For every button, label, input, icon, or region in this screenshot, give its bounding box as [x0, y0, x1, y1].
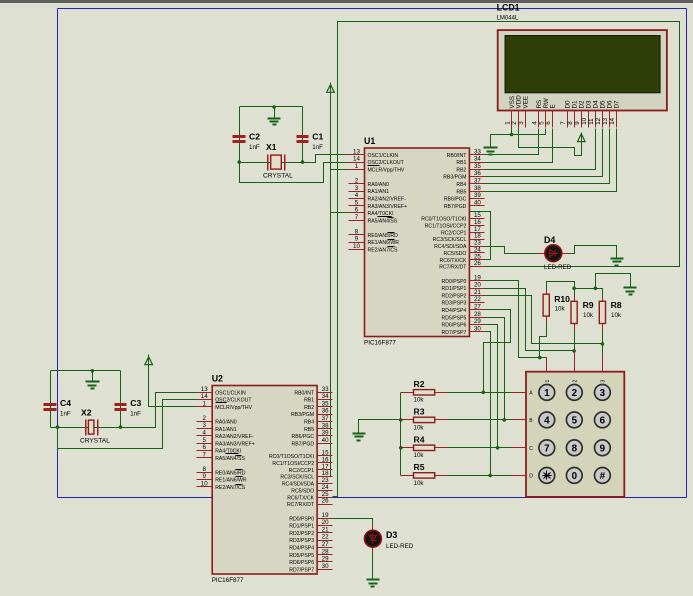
svg-text:RC6/TX/CK: RC6/TX/CK — [287, 495, 314, 501]
svg-text:36: 36 — [322, 408, 329, 415]
pin 16 RC1/T1OSI/CCP2 (right) — [318, 462, 333, 464]
junction X2 loop — [56, 425, 60, 429]
svg-text:D4: D4 — [544, 235, 555, 245]
svg-text:RB2: RB2 — [304, 405, 314, 411]
svg-text:RA1/AN1: RA1/AN1 — [368, 189, 390, 195]
junction VSS — [510, 133, 514, 137]
pin 21 RD2/PSP2 (right) — [318, 532, 333, 534]
microcontroller U2 PIC16F877 — [197, 374, 333, 585]
pin 16 RC1/T1OSI/CCP2 (right) — [470, 225, 485, 227]
svg-text:RC5/SDO: RC5/SDO — [291, 489, 314, 495]
svg-text:RC7/RX/DT: RC7/RX/DT — [439, 265, 467, 271]
svg-text:22: 22 — [474, 296, 481, 303]
svg-text:RB3/PGM: RB3/PGM — [443, 175, 466, 181]
svg-text:RD2/PSP2: RD2/PSP2 — [442, 294, 467, 300]
svg-text:10k: 10k — [555, 306, 566, 313]
pin 13 OSC1/CLKIN (left) — [349, 154, 365, 156]
wire C3 vertical — [120, 371, 122, 428]
wire RB1 to LCD E — [485, 129, 553, 163]
pin 33 RB0/INT (right) — [470, 154, 485, 156]
junction C2/X1 — [237, 160, 241, 164]
svg-text:R9: R9 — [583, 300, 594, 310]
keypad row pin D — [512, 475, 527, 477]
junction col1 — [538, 356, 542, 360]
junction rail row B — [399, 418, 403, 422]
svg-text:37: 37 — [322, 415, 329, 422]
pin 5 RA3/AN3/VREF+ (left) — [197, 443, 213, 445]
pin 2 RA0/AN0 (left) — [349, 183, 365, 185]
resistor R2 stubs — [401, 392, 448, 394]
resistor R3 stubs — [401, 419, 448, 421]
svg-text:8: 8 — [355, 228, 359, 235]
pin 23 RC4/SDI/SDA (right) — [318, 483, 333, 485]
svg-text:2: 2 — [202, 415, 206, 422]
svg-text:14: 14 — [609, 117, 616, 124]
svg-text:RD5/PSP5: RD5/PSP5 — [289, 553, 314, 559]
svg-text:RE2/AN7/CS: RE2/AN7/CS — [368, 247, 399, 253]
LCD pin 5 RW — [545, 111, 547, 128]
svg-text:14: 14 — [353, 156, 360, 163]
svg-text:4: 4 — [544, 416, 550, 427]
LCD screen — [505, 36, 660, 93]
svg-text:29: 29 — [322, 556, 329, 563]
wire C2 vertical — [239, 107, 241, 163]
wire R8 top rail — [575, 289, 603, 297]
wire top rail of X2 caps — [51, 370, 121, 372]
junction C1/X1 — [301, 160, 305, 164]
resistor R4 (10k) — [414, 445, 435, 450]
resistor R3 (10k) — [414, 417, 435, 422]
svg-text:CRYSTAL: CRYSTAL — [80, 438, 110, 445]
pin 17 RC2/CCP1 (right) — [318, 469, 333, 471]
svg-text:C3: C3 — [130, 398, 141, 408]
svg-text:D0: D0 — [565, 100, 572, 109]
svg-text:10: 10 — [353, 243, 360, 250]
wire row A — [448, 392, 512, 394]
svg-text:1nF: 1nF — [312, 144, 323, 151]
LCD pin 10 D3 — [588, 111, 590, 128]
pin 7 RA5/AN4/SS (left) — [197, 457, 213, 459]
svg-text:39: 39 — [474, 192, 481, 199]
LCD pin 13 D6 — [609, 111, 611, 128]
wire D3 cathode to ground — [372, 549, 374, 580]
junction R9/R10 tops — [572, 287, 576, 291]
wire LCD VSS to ground — [491, 135, 512, 148]
pin 35 RB2 (right) — [470, 169, 485, 171]
keypad column pin — [574, 351, 576, 372]
pin 30 RD7/PSP7 (right) — [470, 331, 485, 333]
svg-text:R2: R2 — [414, 379, 425, 389]
svg-text:10k: 10k — [414, 424, 425, 431]
junction X2 rail — [91, 369, 95, 373]
pin 26 RC7/RX/DT (right) — [470, 266, 485, 268]
keypad column pin — [546, 358, 548, 372]
svg-text:RC1/T1OSI/CCP2: RC1/T1OSI/CCP2 — [425, 223, 467, 229]
svg-text:R5: R5 — [414, 462, 425, 472]
svg-text:RA1/AN1: RA1/AN1 — [215, 427, 237, 433]
LCD pin 11 D4 — [595, 111, 597, 128]
svg-text:38: 38 — [474, 185, 481, 192]
pin 10 RE2/AN7/CS (left) — [349, 249, 365, 251]
svg-text:RB6/PGC: RB6/PGC — [444, 197, 467, 203]
svg-text:5: 5 — [355, 199, 359, 206]
pin 2 RA0/AN0 (left) — [197, 421, 213, 423]
svg-text:OSC1/CLKIN: OSC1/CLKIN — [215, 390, 246, 396]
junction row A — [482, 391, 486, 395]
svg-text:22: 22 — [322, 534, 329, 541]
svg-text:38: 38 — [322, 422, 329, 429]
svg-text:X2: X2 — [81, 407, 92, 417]
pin 20 RD1/PSP1 (right) — [470, 288, 485, 290]
pin 9 RE1/AN6/WR (left) — [197, 479, 213, 481]
pin 26 RC7/RX/DT (right) — [318, 504, 333, 506]
pin 6 RA4/T0CKI (left) — [349, 212, 365, 214]
svg-text:RB3/PGM: RB3/PGM — [291, 412, 314, 418]
keypad button 2 — [566, 385, 582, 401]
svg-text:RB4: RB4 — [456, 182, 466, 188]
wire X2 loop to U2 OSC2 pin14 — [58, 400, 197, 449]
pin 29 RD6/PSP6 (right) — [318, 561, 333, 563]
pin 3 RA1/AN1 (left) — [197, 428, 213, 430]
svg-text:3: 3 — [202, 422, 206, 429]
svg-text:37: 37 — [474, 178, 481, 185]
pin 22 RD3/PSP3 (right) — [318, 540, 333, 542]
ground R8-R10 rail — [624, 288, 637, 295]
pin 36 RB3/PGM (right) — [318, 414, 333, 416]
wire RB4 to LCD D6 — [485, 129, 610, 184]
LCD pin 3 VEE — [525, 111, 527, 128]
svg-text:RB1: RB1 — [304, 398, 314, 404]
pin 8 RE0/AN5/RD (left) — [349, 234, 365, 236]
wire RD2 to keypad col3 — [485, 296, 603, 344]
LCD pin 9 D2 — [581, 111, 583, 128]
wire row D — [448, 475, 512, 477]
svg-text:RC7/RX/DT: RC7/RX/DT — [287, 502, 315, 508]
pin 38 RB5 (right) — [318, 428, 333, 430]
keypad button 7 — [539, 440, 555, 456]
pin 13 OSC1/CLKIN (left) — [197, 392, 213, 394]
svg-text:RB7/PGD: RB7/PGD — [444, 204, 467, 210]
svg-text:11: 11 — [588, 118, 595, 125]
svg-text:RB1: RB1 — [456, 160, 466, 166]
svg-text:C4: C4 — [60, 398, 71, 408]
svg-text:1nF: 1nF — [60, 411, 71, 418]
LCD pin 8 D1 — [574, 111, 576, 128]
svg-text:RC2/CCP1: RC2/CCP1 — [441, 230, 467, 236]
pin 37 RB4 (right) — [318, 421, 333, 423]
svg-text:3: 3 — [518, 121, 525, 125]
svg-text:OSC1/CLKIN: OSC1/CLKIN — [368, 153, 399, 159]
svg-text:26: 26 — [322, 498, 329, 505]
keypad row pin B — [512, 419, 527, 421]
wire C1 vertical — [302, 107, 304, 163]
wire RD1 to keypad col2 — [485, 289, 575, 351]
svg-text:D2: D2 — [579, 100, 586, 109]
pin 40 RB7/PGD (right) — [318, 443, 333, 445]
wire RD6 to keypad row C — [485, 325, 498, 448]
wire RD0 to keypad col1 — [485, 281, 540, 358]
wire RB2 to LCD D4 — [485, 129, 596, 170]
pin 28 RD5/PSP5 (right) — [470, 317, 485, 319]
svg-text:LM044L: LM044L — [497, 16, 519, 22]
pin 5 RA3/AN3/VREF+ (left) — [349, 205, 365, 207]
pin 29 RD6/PSP6 (right) — [470, 324, 485, 326]
wire RB0 to LCD RS — [485, 129, 539, 155]
svg-text:RB7/PGD: RB7/PGD — [292, 441, 315, 447]
pin 8 RE0/AN5/RD (left) — [197, 472, 213, 474]
resistor R9 (10k) — [571, 301, 577, 323]
svg-text:1: 1 — [202, 400, 206, 407]
wire row B — [448, 419, 512, 421]
junction row B — [503, 418, 507, 422]
LCD pin 6 E — [552, 111, 554, 128]
top toolbar strip — [0, 0, 693, 3]
wire U1 RC4 to D4 anode — [485, 247, 545, 254]
wire LCD VSS to RW — [512, 128, 546, 135]
wire LCD VDD to power — [519, 128, 582, 156]
power arrow LCD VDD — [578, 133, 586, 142]
wire D4 cathode to ground — [568, 246, 617, 259]
resistor R8 (10k) — [599, 301, 605, 323]
pin 1 MCLR/Vpp/THV (left) — [197, 406, 213, 408]
svg-text:7: 7 — [202, 451, 206, 458]
pin 37 RB4 (right) — [470, 183, 485, 185]
keypad button 9 — [595, 440, 611, 456]
svg-text:#: # — [600, 471, 606, 482]
svg-text:19: 19 — [322, 512, 329, 519]
svg-text:20: 20 — [474, 282, 481, 289]
svg-text:RC6/TX/CK: RC6/TX/CK — [440, 258, 467, 264]
svg-text:RD4/PSP4: RD4/PSP4 — [289, 546, 314, 552]
wire rail to ground — [596, 274, 631, 289]
pin 27 RD4/PSP4 (right) — [318, 547, 333, 549]
keypad button 5 — [566, 412, 582, 428]
svg-text:20: 20 — [322, 519, 329, 526]
wire top rail of X1 caps — [240, 106, 303, 108]
svg-text:34: 34 — [322, 393, 329, 400]
svg-text:28: 28 — [322, 548, 329, 555]
power arrow VCC U1 — [327, 83, 335, 93]
svg-text:D6: D6 — [606, 100, 613, 109]
svg-text:C2: C2 — [249, 132, 260, 142]
svg-text:RA0/AN0: RA0/AN0 — [368, 182, 390, 188]
svg-text:9: 9 — [600, 443, 606, 454]
svg-text:D3: D3 — [386, 530, 397, 540]
svg-text:4: 4 — [202, 430, 206, 437]
pin 38 RB5 (right) — [470, 191, 485, 193]
LED D4 LED-RED — [538, 253, 570, 255]
svg-text:RB4: RB4 — [304, 420, 314, 426]
keypad button 3 — [595, 385, 611, 401]
keypad row pin C — [512, 447, 527, 449]
svg-text:27: 27 — [322, 541, 329, 548]
pin 28 RD5/PSP5 (right) — [318, 554, 333, 556]
wire RD7 to keypad row D — [485, 332, 491, 476]
keypad button 0 — [566, 468, 582, 484]
svg-text:RD6/PSP6: RD6/PSP6 — [442, 323, 467, 329]
LED D3 LED-RED — [372, 525, 374, 553]
svg-text:RD0/PSP0: RD0/PSP0 — [442, 279, 467, 285]
svg-text:RC3/SCK/SCL: RC3/SCK/SCL — [433, 237, 467, 243]
pin 25 RC6/TX/CK (right) — [470, 259, 485, 261]
svg-text:RD3/PSP3: RD3/PSP3 — [442, 301, 467, 307]
svg-text:40: 40 — [322, 437, 329, 444]
svg-text:E: E — [550, 104, 557, 108]
svg-text:35: 35 — [474, 163, 481, 170]
svg-text:RB6/PGC: RB6/PGC — [292, 434, 315, 440]
svg-text:6: 6 — [202, 444, 206, 451]
svg-text:33: 33 — [474, 148, 481, 155]
svg-text:C: C — [529, 446, 533, 452]
pin 23 RC4/SDI/SDA (right) — [470, 246, 485, 248]
pin 10 RE2/AN7/CS (left) — [197, 486, 213, 488]
junction rail/ground spur — [594, 287, 598, 291]
svg-text:10k: 10k — [583, 312, 594, 319]
svg-text:LED-RED: LED-RED — [544, 264, 572, 271]
wire RB3 to LCD D5 — [485, 129, 603, 177]
pin 24 RC5/SDO (right) — [470, 252, 485, 254]
wire R9 bottom to col2 — [574, 330, 576, 351]
pin 21 RD2/PSP2 (right) — [470, 295, 485, 297]
svg-text:RB2: RB2 — [456, 167, 466, 173]
LCD pin 1 VSS — [511, 111, 513, 128]
svg-text:6: 6 — [545, 121, 552, 125]
svg-text:RD7/PSP7: RD7/PSP7 — [442, 330, 467, 336]
svg-text:RA3/AN3/VREF+: RA3/AN3/VREF+ — [215, 441, 255, 447]
pin 19 RD0/PSP0 (right) — [318, 518, 333, 520]
svg-text:7: 7 — [355, 214, 359, 221]
resistor R4 stubs — [401, 447, 448, 449]
pin 4 RA2/AN2/VREF- (left) — [349, 198, 365, 200]
wire to U1 MCLR pin1 — [331, 169, 349, 171]
svg-text:40: 40 — [474, 199, 481, 206]
pin 39 RB6/PGC (right) — [318, 435, 333, 437]
pin 19 RD0/PSP0 (right) — [470, 280, 485, 282]
pin 1 MCLR/Vpp/THV (left) — [349, 169, 365, 171]
svg-text:D: D — [529, 473, 533, 479]
wire X1 loop to U1 OSC2 pin14 — [240, 163, 349, 183]
microcontroller U1 PIC16F877 — [349, 136, 485, 347]
pin 25 RC6/TX/CK (right) — [318, 497, 333, 499]
svg-text:RE0/AN5/RD: RE0/AN5/RD — [368, 233, 399, 239]
svg-text:MCLR/Vpp/THV: MCLR/Vpp/THV — [215, 405, 252, 411]
pin 39 RB6/PGC (right) — [470, 198, 485, 200]
sheet border frame — [58, 9, 687, 498]
wire RD4 to keypad row A — [484, 310, 511, 393]
wire X1 to U1 OSC1 pin13 — [240, 155, 349, 163]
svg-text:RD5/PSP5: RD5/PSP5 — [442, 315, 467, 321]
svg-text:VEE: VEE — [522, 96, 529, 109]
pin 17 RC2/CCP1 (right) — [470, 232, 485, 234]
pin 14 OSC2/CLKOUT (left) — [197, 399, 213, 401]
svg-text:RD7/PSP7: RD7/PSP7 — [289, 567, 314, 573]
svg-text:6: 6 — [355, 207, 359, 214]
svg-text:PIC16F877: PIC16F877 — [364, 340, 396, 347]
pin 3 RA1/AN1 (left) — [349, 191, 365, 193]
svg-text:RC4/SDI/SDA: RC4/SDI/SDA — [434, 244, 467, 250]
ground keypad rows — [353, 434, 366, 441]
svg-text:8: 8 — [202, 466, 206, 473]
junction col3 — [601, 342, 605, 346]
junction row C — [496, 446, 500, 450]
LCD pin 7 D0 — [567, 111, 569, 128]
pin 40 RB7/PGD (right) — [470, 205, 485, 207]
pin 36 RB3/PGM (right) — [470, 176, 485, 178]
svg-text:PIC16F877: PIC16F877 — [212, 577, 244, 584]
pin 27 RD4/PSP4 (right) — [470, 309, 485, 311]
wire RD5 to keypad row B — [485, 318, 505, 420]
svg-text:19: 19 — [474, 274, 481, 281]
svg-text:D4: D4 — [592, 100, 599, 109]
svg-text:RB5: RB5 — [304, 427, 314, 433]
capacitor C3 — [115, 405, 127, 410]
svg-text:RE2/AN7/CS: RE2/AN7/CS — [215, 485, 246, 491]
keypad row pin A — [512, 392, 527, 394]
keypad column pin — [602, 357, 604, 372]
svg-text:3: 3 — [600, 380, 606, 383]
svg-text:2: 2 — [572, 380, 578, 383]
ground D3 — [367, 580, 380, 587]
svg-text:RA5/AN4/SS: RA5/AN4/SS — [368, 218, 398, 224]
svg-text:1: 1 — [545, 380, 551, 383]
wire power to U2 MCLR pin1 — [149, 365, 197, 407]
svg-text:10k: 10k — [414, 480, 425, 487]
ground X2 rail — [86, 382, 100, 389]
pin 34 RB1 (right) — [470, 162, 485, 164]
pin 4 RA2/AN2/VREF- (left) — [197, 435, 213, 437]
svg-text:13: 13 — [201, 386, 208, 393]
svg-text:RC2/CCP1: RC2/CCP1 — [289, 468, 315, 474]
junction col2 — [572, 349, 576, 353]
junction row D — [488, 474, 492, 478]
wire X2 to U2 OSC1 pin13 — [51, 393, 197, 428]
svg-text:D7: D7 — [613, 100, 620, 109]
svg-text:X1: X1 — [266, 142, 277, 152]
ground LCD VSS — [484, 148, 498, 155]
wire U1 RC6 bracket — [470, 212, 491, 260]
svg-text:10: 10 — [201, 480, 208, 487]
keypad button 1 — [539, 385, 555, 401]
svg-text:RA2/AN2/VREF-: RA2/AN2/VREF- — [215, 434, 254, 440]
pin 18 RC3/SCK/SCL (right) — [470, 239, 485, 241]
pin 6 RA4/T0CKI (left) — [197, 450, 213, 452]
ground D4 — [611, 259, 624, 266]
pin 7 RA5/AN4/SS (left) — [349, 220, 365, 222]
junction rail/ground — [272, 105, 276, 109]
wire R9 top — [574, 289, 576, 297]
svg-text:7: 7 — [544, 443, 550, 454]
svg-text:RC4/SDI/SDA: RC4/SDI/SDA — [282, 482, 315, 488]
svg-text:30: 30 — [322, 563, 329, 570]
svg-text:RC1/T1OSI/CCP2: RC1/T1OSI/CCP2 — [272, 461, 314, 467]
capacitor C2 — [233, 137, 246, 142]
svg-text:33: 33 — [322, 386, 329, 393]
svg-text:LCD1: LCD1 — [497, 3, 520, 13]
crystal X2 — [86, 420, 98, 436]
wire serial loop U1 RC7 to U2 RC6 — [333, 22, 680, 497]
svg-text:10k: 10k — [611, 312, 622, 319]
svg-text:34: 34 — [474, 156, 481, 163]
svg-text:RA5/AN4/SS: RA5/AN4/SS — [215, 456, 245, 462]
LCD pin 2 VDD — [518, 111, 520, 128]
resistor R10 (10k) — [543, 294, 549, 316]
svg-text:LED-RED: LED-RED — [386, 543, 414, 550]
pin 34 RB1 (right) — [318, 399, 333, 401]
svg-text:9: 9 — [355, 236, 359, 243]
LCD LCD1 LM044L — [497, 3, 667, 128]
wire row C — [448, 447, 512, 449]
svg-text:7: 7 — [560, 121, 567, 125]
